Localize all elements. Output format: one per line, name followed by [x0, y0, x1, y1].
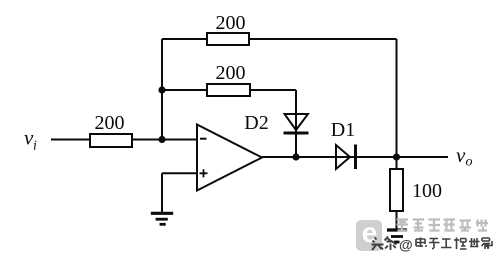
svg-text:e: e [362, 217, 378, 248]
svg-text:200: 200 [216, 62, 246, 84]
svg-text:100: 100 [412, 180, 442, 202]
svg-text:D2: D2 [244, 112, 268, 134]
svg-text:200: 200 [216, 12, 246, 34]
svg-text:D1: D1 [331, 119, 355, 141]
svg-text:i: i [33, 139, 37, 154]
svg-text:200: 200 [95, 112, 125, 134]
svg-text:@: @ [399, 237, 413, 253]
svg-text:o: o [466, 155, 473, 170]
svg-text:v: v [456, 143, 466, 167]
